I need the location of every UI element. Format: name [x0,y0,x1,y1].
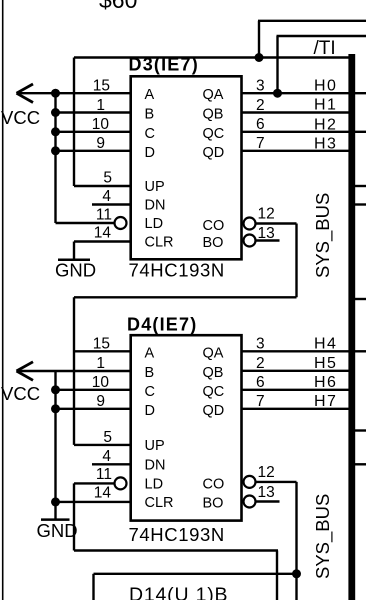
svg-text:H2: H2 [314,116,337,133]
svg-text:CLR: CLR [145,495,174,511]
svg-text:11: 11 [96,466,112,483]
svg-text:H7: H7 [314,393,337,410]
svg-text:1: 1 [96,97,105,114]
svg-text:CO: CO [203,476,225,492]
svg-text:10: 10 [92,374,110,391]
svg-text:D4(IE7): D4(IE7) [127,315,197,335]
svg-text:C: C [145,126,155,142]
svg-text:DN: DN [145,457,166,473]
svg-text:C: C [145,384,155,400]
svg-text:QA: QA [203,345,224,361]
svg-text:QB: QB [203,107,224,123]
svg-text:A: A [145,87,155,103]
svg-text:BO: BO [203,496,224,512]
svg-text:QD: QD [203,403,225,419]
svg-text:CO: CO [203,218,225,234]
svg-text:4: 4 [102,448,111,465]
svg-text:QA: QA [203,87,224,103]
svg-text:14: 14 [94,485,112,502]
svg-text:QD: QD [203,145,225,161]
svg-text:VCC: VCC [1,107,40,128]
svg-text:13: 13 [258,225,275,242]
svg-text:H1: H1 [314,97,337,114]
svg-text:5: 5 [103,429,112,446]
svg-text:UP: UP [145,438,165,454]
svg-text:7: 7 [256,135,265,152]
svg-text:4: 4 [102,188,111,205]
svg-text:10: 10 [92,116,110,133]
svg-text:13: 13 [258,484,275,501]
svg-text:SYS_BUS: SYS_BUS [312,494,334,579]
svg-text:LD: LD [145,476,164,492]
svg-text:GND: GND [37,520,78,541]
svg-text:15: 15 [93,78,110,95]
svg-text:15: 15 [93,335,110,352]
svg-text:A: A [145,345,155,361]
svg-text:B: B [145,365,155,381]
svg-text:12: 12 [258,206,275,223]
svg-text:SYS_BUS: SYS_BUS [312,193,334,278]
svg-text:7: 7 [256,393,265,410]
svg-text:12: 12 [258,464,275,481]
svg-text:74HC193N: 74HC193N [129,524,225,545]
svg-text:VCC: VCC [1,383,40,404]
svg-text:1: 1 [96,355,105,372]
svg-text:DN: DN [145,198,166,214]
svg-text:H4: H4 [314,335,337,352]
svg-text:6: 6 [256,116,265,133]
svg-text:BO: BO [203,235,224,251]
svg-text:6: 6 [256,374,265,391]
svg-text:UP: UP [145,179,165,195]
svg-text:QB: QB [203,365,224,381]
svg-text:5: 5 [103,170,112,187]
svg-text:H3: H3 [314,136,337,153]
svg-text:9: 9 [96,135,105,152]
svg-text:D14(U 1)B: D14(U 1)B [129,584,228,600]
svg-text:9: 9 [96,393,105,410]
svg-text:GND: GND [55,260,96,281]
svg-text:H6: H6 [314,374,337,391]
svg-text:3: 3 [256,335,265,352]
svg-text:CLR: CLR [145,235,174,251]
svg-text:B: B [145,107,155,123]
svg-text:QC: QC [203,126,225,142]
svg-text:H5: H5 [314,355,337,372]
svg-text:D3(IE7): D3(IE7) [129,55,199,75]
svg-text:11: 11 [96,207,112,224]
svg-text:QC: QC [203,384,225,400]
svg-text:74HC193N: 74HC193N [129,260,225,281]
svg-text:2: 2 [256,97,265,114]
svg-text:D: D [145,403,155,419]
svg-text:2: 2 [256,355,265,372]
svg-text:3: 3 [256,78,265,95]
svg-text:14: 14 [94,225,112,242]
svg-text:H0: H0 [314,77,337,94]
svg-text:D: D [145,145,155,161]
svg-text:$60: $60 [99,0,137,13]
svg-text:LD: LD [145,216,164,232]
svg-text:/TI: /TI [314,38,336,59]
